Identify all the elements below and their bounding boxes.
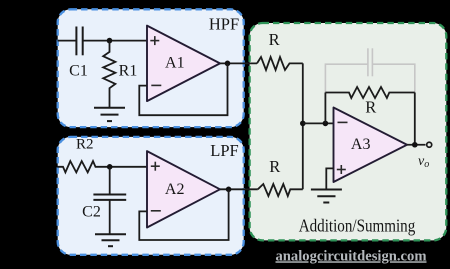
svg-text:LPF: LPF xyxy=(210,141,238,160)
capacitor C feedback (grey) xyxy=(325,48,414,92)
wire A1 feedback loop xyxy=(139,63,227,115)
wire summing node to A3 minus input xyxy=(303,122,334,124)
A2 minus pin xyxy=(151,210,161,212)
ground below R1 xyxy=(94,108,125,121)
svg-text:A1: A1 xyxy=(165,55,185,72)
terminal vo xyxy=(427,142,432,147)
node junction R2/C2 xyxy=(107,164,113,170)
resistor R2 xyxy=(58,161,110,172)
svg-text:A2: A2 xyxy=(165,181,185,198)
HPF filter block box xyxy=(58,9,244,127)
wire A2 output to summing R xyxy=(220,188,258,190)
op-amp A3 xyxy=(334,108,408,183)
wire C2 to ground xyxy=(109,200,111,234)
wire feedback tap up xyxy=(324,93,326,124)
capacitor C2 xyxy=(93,195,126,200)
ground at A3 plus input xyxy=(311,190,342,203)
resistor R1 xyxy=(103,41,115,108)
svg-text:R: R xyxy=(269,157,280,176)
svg-text:C1: C1 xyxy=(69,62,88,79)
svg-text:A3: A3 xyxy=(351,136,371,153)
svg-text:R: R xyxy=(365,97,376,116)
wire top R down to summing node xyxy=(302,63,304,123)
resistor R (top input) xyxy=(257,57,303,70)
wire A3 output xyxy=(407,144,426,146)
A3 minus pin xyxy=(338,121,348,123)
svg-text:analogcircuitdesign.com: analogcircuitdesign.com xyxy=(276,248,427,264)
svg-text:Addition/Summing: Addition/Summing xyxy=(299,215,416,235)
node summing junction xyxy=(300,121,306,127)
LPF filter block box xyxy=(58,137,244,255)
wire junction to C2 xyxy=(109,167,111,195)
node A3 output xyxy=(412,142,418,148)
svg-text:HPF: HPF xyxy=(209,15,239,34)
wire A1 output to summing R xyxy=(220,62,257,64)
node feedback tap xyxy=(323,121,329,127)
capacitor C1 xyxy=(76,27,82,56)
A1 minus pin xyxy=(151,84,161,86)
wire C1 to A1 plus input xyxy=(83,40,147,42)
Addition/Summing block box xyxy=(250,23,447,240)
node A1 output xyxy=(225,61,231,67)
resistor R (bottom input) xyxy=(258,184,303,196)
wire A3 plus input to ground xyxy=(326,168,333,189)
svg-text:C2: C2 xyxy=(82,204,101,221)
A1 plus pin xyxy=(150,36,159,45)
node junction C1/R1 xyxy=(107,38,113,44)
op-amp A1 xyxy=(147,26,220,102)
A3 plus pin xyxy=(337,165,346,174)
resistor R (feedback) xyxy=(325,87,414,98)
svg-text:R2: R2 xyxy=(76,136,94,152)
wire HPF input to C1 xyxy=(58,40,77,42)
op-amp A2 xyxy=(147,151,220,227)
svg-text:R1: R1 xyxy=(119,63,138,80)
wire A2 feedback loop xyxy=(139,189,228,240)
wire R2 to A2 plus input xyxy=(110,166,147,168)
wire bottom R up to summing node xyxy=(302,123,304,189)
A2 plus pin xyxy=(151,162,160,171)
node A2 output xyxy=(226,187,232,193)
ground below C2 xyxy=(95,234,126,246)
wire feedback down to output xyxy=(414,93,416,145)
svg-text:R: R xyxy=(269,30,280,49)
